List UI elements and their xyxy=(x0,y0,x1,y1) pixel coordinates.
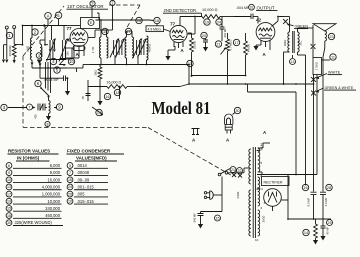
label 2.5 ohm xyxy=(26,45,30,52)
label 4.0 MF xyxy=(324,197,328,206)
label GREEN AND WHITE xyxy=(316,86,356,93)
wire rect pins xyxy=(264,200,288,211)
IF transformer T2 primary xyxy=(125,37,127,58)
label 640 xyxy=(236,192,240,199)
svg-text:16: 16 xyxy=(303,186,307,190)
node 30b xyxy=(233,107,241,114)
svg-text:28: 28 xyxy=(327,186,331,190)
wire det junction xyxy=(191,75,193,77)
wire det plate xyxy=(187,16,196,34)
pilot lamp xyxy=(225,114,233,134)
svg-text:9: 9 xyxy=(92,2,94,6)
svg-text:29: 29 xyxy=(328,221,332,225)
node 9 xyxy=(56,104,62,110)
node 13 xyxy=(187,60,193,66)
table resistor values xyxy=(6,149,63,226)
label GREEN xyxy=(287,24,308,29)
svg-text:.045 MF: .045 MF xyxy=(192,213,196,223)
wire if coil bottoms xyxy=(101,58,147,65)
label .045 xyxy=(192,213,196,223)
wire primary top stub xyxy=(257,147,260,151)
label 80 xyxy=(257,187,261,191)
wire rect cathode xyxy=(287,175,289,220)
svg-text:6: 6 xyxy=(261,206,263,210)
svg-text:A: A xyxy=(192,138,196,143)
wire osc plate to IFT1 xyxy=(88,30,101,38)
node 16 xyxy=(136,17,142,23)
svg-text:GREEN & WHITE: GREEN & WHITE xyxy=(325,86,354,90)
power transformer T4 HV secondary xyxy=(258,148,260,172)
svg-text:9: 9 xyxy=(58,105,61,110)
svg-text:18: 18 xyxy=(155,19,159,23)
node 8 xyxy=(0,0,1,1)
wire bus 76 xyxy=(191,75,296,92)
node 8b xyxy=(45,121,50,126)
svg-text:17: 17 xyxy=(7,192,11,196)
ground trap xyxy=(46,114,51,121)
node 17 xyxy=(125,28,131,34)
trimmer capacitor T2 a xyxy=(133,39,142,58)
svg-text:9: 9 xyxy=(8,171,10,175)
svg-text:.001 MF: .001 MF xyxy=(223,28,227,38)
svg-text:7: 7 xyxy=(112,1,114,5)
wire vertical green-white xyxy=(295,92,297,175)
node 17b xyxy=(233,39,239,45)
svg-text:15: 15 xyxy=(216,216,220,220)
tube V4 80 rectifier xyxy=(264,189,282,207)
node 31 xyxy=(249,4,255,10)
node 21b xyxy=(230,167,236,173)
trimmer capacitor T1 b xyxy=(116,39,125,58)
svg-text:.05: .05 xyxy=(81,96,85,100)
svg-text:5: 5 xyxy=(261,161,263,165)
output transformer T3 primary xyxy=(280,17,290,53)
svg-text:21: 21 xyxy=(231,168,235,172)
IF transformer T1 secondary xyxy=(101,30,108,58)
wire arrow left xyxy=(54,106,57,108)
dashed shield boundary top xyxy=(109,4,140,6)
svg-text:18: 18 xyxy=(115,91,119,95)
wire switch verticals xyxy=(46,62,51,93)
label 42 xyxy=(256,18,262,23)
dashed shield boundary right diagonal xyxy=(126,5,140,29)
dashed shield boundary left xyxy=(22,56,24,127)
variable capacitor C-gang section 1 xyxy=(47,26,56,62)
antenna lead-in wire xyxy=(2,45,7,63)
node 3 with ground xyxy=(36,53,42,64)
trimmer capacitor T2 b xyxy=(138,39,147,58)
wire bus top mid xyxy=(0,0,1,1)
label A under V2 xyxy=(181,48,185,53)
svg-text:10,000: 10,000 xyxy=(47,199,60,204)
antenna pin 2 xyxy=(13,26,16,45)
node E boxed xyxy=(81,18,100,29)
svg-text:.09-.09: .09-.09 xyxy=(77,177,90,182)
svg-text:.015-.015: .015-.015 xyxy=(77,199,95,204)
tuning arrow Z xyxy=(60,59,66,67)
node 14b xyxy=(303,229,309,235)
svg-text:430: 430 xyxy=(34,114,38,119)
svg-text:19: 19 xyxy=(205,20,209,24)
label 49 xyxy=(246,43,250,52)
x junction green-white xyxy=(311,91,316,96)
wire arrow into trap xyxy=(8,106,36,108)
title Model 81 xyxy=(152,98,211,118)
wire down arrows xyxy=(49,40,56,52)
svg-text:10: 10 xyxy=(255,238,259,242)
svg-text:14: 14 xyxy=(304,231,308,235)
wire vertical white xyxy=(313,75,315,192)
capacitor electrolytic 4 MF xyxy=(320,192,326,219)
wire bottom bus xyxy=(287,218,331,220)
svg-text:31C: 31C xyxy=(298,40,302,45)
node 14 xyxy=(96,109,102,115)
svg-text:1: 1 xyxy=(8,33,11,38)
ground bleeder xyxy=(313,238,318,245)
capacitor electrolytic 8 MF xyxy=(311,192,317,219)
svg-text:640Ω: 640Ω xyxy=(236,192,240,199)
svg-text:30,000Ω: 30,000Ω xyxy=(8,45,12,57)
svg-text:16: 16 xyxy=(137,19,141,23)
wire det bus junction xyxy=(188,64,190,84)
variable capacitor C-gang section 2 xyxy=(59,26,68,62)
wire top edge circles xyxy=(90,0,115,6)
svg-text:RECTIFIER: RECTIFIER xyxy=(264,181,283,185)
coil choke xyxy=(147,36,149,60)
IF transformer T1 primary 1.7 ohm xyxy=(100,37,102,58)
capacitor .004 MF xyxy=(234,6,258,19)
speaker cone xyxy=(313,24,336,31)
speaker field coil 1750 ohm xyxy=(313,58,322,75)
node 16c xyxy=(302,184,308,190)
pin 4 xyxy=(261,187,263,191)
tube V1 pins xyxy=(73,45,85,51)
svg-text:16,000: 16,000 xyxy=(47,177,60,182)
svg-text:16: 16 xyxy=(105,95,109,99)
svg-text:4.9 MEG.: 4.9 MEG. xyxy=(148,27,162,31)
wire 18 to det grid xyxy=(149,20,157,26)
svg-text:OUTPUT: OUTPUT xyxy=(257,6,275,11)
node 28 xyxy=(326,184,332,190)
svg-text:15: 15 xyxy=(7,207,11,211)
heater tap symbol xyxy=(192,129,200,135)
svg-text:A: A xyxy=(47,13,50,18)
wire horizontal 174 xyxy=(257,75,317,175)
node 18 top xyxy=(154,17,160,23)
pin 6 xyxy=(261,206,263,210)
node 3b xyxy=(1,104,7,110)
tube V3 42 output xyxy=(256,23,275,42)
node 24 xyxy=(216,19,222,25)
svg-text:VALUES(MFD): VALUES(MFD) xyxy=(76,156,107,161)
svg-text:10,000 Ω: 10,000 Ω xyxy=(202,8,218,12)
node 7 trap xyxy=(27,104,33,110)
capacitor .05 out xyxy=(320,219,325,241)
svg-text:IN (OHMS): IN (OHMS) xyxy=(17,156,40,161)
label 77 osc tube type xyxy=(67,26,73,31)
node 29 xyxy=(327,220,333,226)
label J1C xyxy=(298,40,302,45)
svg-text:13: 13 xyxy=(7,185,11,189)
label RECTIFIER boxed xyxy=(262,177,290,186)
svg-text:A: A xyxy=(226,138,230,143)
svg-text:8.0 MF: 8.0 MF xyxy=(306,197,310,206)
label A under V3 xyxy=(263,52,267,57)
antenna pin 1 xyxy=(5,26,8,63)
node 21 xyxy=(215,41,221,47)
svg-text:30: 30 xyxy=(7,221,11,225)
svg-text:1.7Ω: 1.7Ω xyxy=(91,46,95,53)
wire main B bus xyxy=(137,83,314,86)
svg-text:18: 18 xyxy=(7,214,11,218)
svg-text:11: 11 xyxy=(103,30,107,34)
power transformer T4 core xyxy=(253,147,255,238)
resistor bleeder xyxy=(314,219,318,238)
label 1ST OSCILLATOR xyxy=(67,4,109,9)
node 1 xyxy=(6,32,12,38)
wire if verticals top xyxy=(92,6,113,31)
node 16b xyxy=(104,93,110,99)
wire det down xyxy=(191,52,193,76)
label 8.0 MF xyxy=(306,197,310,206)
node 23 xyxy=(328,33,334,39)
tube V1 77 oscillator xyxy=(67,26,88,47)
svg-text:Model 81: Model 81 xyxy=(152,98,211,118)
svg-text:2ND DETECTOR.: 2ND DETECTOR. xyxy=(164,8,198,13)
power transformer T4 6V winding xyxy=(258,210,260,236)
wire opt to field xyxy=(302,55,306,75)
wire gang bottom xyxy=(46,58,66,61)
wire trimmer bottoms xyxy=(115,55,138,65)
capacitor .001 xyxy=(220,17,227,42)
wire cap to ground xyxy=(65,78,70,95)
svg-text:10: 10 xyxy=(7,178,11,182)
wire switch to primary xyxy=(228,168,249,173)
node 2 xyxy=(32,29,38,35)
wire vertical speaker return xyxy=(322,57,324,192)
trimmer capacitor T1 a xyxy=(110,39,119,58)
wire gang to cap xyxy=(39,62,41,78)
wire field stub xyxy=(322,59,331,61)
dashed shield boundary bottom xyxy=(23,127,148,129)
svg-text:42: 42 xyxy=(256,18,262,23)
wire 35 to bus xyxy=(99,65,101,88)
svg-text:13: 13 xyxy=(291,60,295,64)
wire plate to OPT xyxy=(270,17,284,51)
svg-text:7: 7 xyxy=(69,171,71,175)
wire bus avc xyxy=(90,64,189,66)
node 18b xyxy=(114,89,120,95)
capacitor .05 grid xyxy=(81,80,91,101)
wire to output grid xyxy=(257,17,259,24)
svg-text:2.5Ω: 2.5Ω xyxy=(26,45,30,52)
x junction speaker xyxy=(323,41,325,57)
wire left bus 68 xyxy=(39,67,41,69)
label A lamp xyxy=(226,138,230,143)
svg-text:460,000: 460,000 xyxy=(45,213,61,218)
svg-text:49,000: 49,000 xyxy=(246,43,250,52)
svg-text:WHITE: WHITE xyxy=(328,71,341,75)
node 4 xyxy=(50,58,56,64)
svg-text:A: A xyxy=(181,48,185,53)
dashed shield boundary diagonal to switch xyxy=(148,128,232,176)
svg-text:14: 14 xyxy=(97,111,101,115)
tube V3 pins xyxy=(261,41,270,48)
label .45 MF xyxy=(326,227,330,235)
svg-text:16,000 Ω: 16,000 Ω xyxy=(107,81,122,85)
svg-text:77: 77 xyxy=(67,26,73,31)
svg-text:11: 11 xyxy=(331,55,335,59)
label WHITE xyxy=(316,71,342,80)
switch S2 tone xyxy=(92,107,103,116)
svg-text:19: 19 xyxy=(7,200,11,204)
label 30000 xyxy=(8,45,12,57)
switch S1 wave band xyxy=(40,87,50,98)
svg-text:360Ω: 360Ω xyxy=(262,216,266,223)
svg-text:4,000,000: 4,000,000 xyxy=(42,184,61,189)
svg-text:.005: .005 xyxy=(77,192,86,197)
svg-text:25,000: 25,000 xyxy=(192,40,196,49)
node 19 xyxy=(204,19,210,25)
node 13b xyxy=(290,55,296,65)
wire vertical field return xyxy=(305,75,307,186)
svg-text:.001-.015: .001-.015 xyxy=(77,184,95,189)
svg-text:240,000: 240,000 xyxy=(45,206,61,211)
wire T4 top xyxy=(258,143,270,148)
svg-text:3: 3 xyxy=(3,105,6,110)
svg-text:80: 80 xyxy=(257,187,261,191)
node A xyxy=(45,13,52,26)
node 11 xyxy=(102,28,108,34)
svg-text:10: 10 xyxy=(69,59,74,64)
wire opt primary down xyxy=(283,52,290,85)
IF transformer T2 secondary xyxy=(127,31,134,58)
svg-text:26: 26 xyxy=(68,192,72,196)
svg-text:1ST OSCILLATOR: 1ST OSCILLATOR xyxy=(67,4,104,9)
ground 16000 xyxy=(97,87,102,106)
wire opt secondary to speaker xyxy=(298,25,316,58)
svg-text:E: E xyxy=(90,21,93,25)
wire trap top xyxy=(48,97,50,101)
label 25000 xyxy=(192,40,196,49)
speaker voice coil xyxy=(325,31,327,41)
pin 8 xyxy=(261,174,263,178)
svg-text:360Ω: 360Ω xyxy=(283,40,287,47)
ground output cathode xyxy=(253,45,261,51)
output transformer T3 core xyxy=(293,31,295,53)
pin 5 xyxy=(261,161,263,165)
svg-text:23: 23 xyxy=(329,35,333,39)
switch S3 power xyxy=(218,169,230,176)
svg-text:10: 10 xyxy=(68,200,72,204)
node 22b xyxy=(237,168,243,174)
svg-text:7: 7 xyxy=(29,105,31,109)
svg-text:24: 24 xyxy=(217,20,221,24)
resistor 30000 ohm antenna shunt xyxy=(12,44,16,64)
tube V2 pins xyxy=(174,42,183,48)
svg-text:22: 22 xyxy=(238,169,242,173)
wire V1 cathode bottom xyxy=(66,52,79,59)
node 15b xyxy=(215,215,221,221)
label 77 det xyxy=(170,22,176,27)
svg-text:16: 16 xyxy=(68,178,72,182)
capacitor det bypass xyxy=(203,38,208,52)
output transformer T3 secondary xyxy=(298,32,300,52)
svg-text:4: 4 xyxy=(261,187,263,191)
svg-text:21: 21 xyxy=(216,42,220,46)
wire r down xyxy=(245,55,247,76)
capacitor trap series xyxy=(38,104,45,111)
node 11b xyxy=(330,54,336,60)
svg-text:4.0 MF: 4.0 MF xyxy=(324,197,328,206)
x junction sw1 xyxy=(232,173,236,177)
x junction white xyxy=(311,77,316,82)
capacitor .045 MF line xyxy=(198,195,223,229)
svg-text:24: 24 xyxy=(68,185,72,189)
wire plug cord xyxy=(213,177,222,196)
label 0.7 MEG xyxy=(229,40,233,51)
power transformer T4 5V winding xyxy=(258,177,260,206)
svg-text:6,000: 6,000 xyxy=(50,163,61,168)
svg-text:5: 5 xyxy=(57,13,60,18)
wire antenna to coil xyxy=(44,26,48,46)
svg-text:8: 8 xyxy=(47,122,49,126)
label A under V1 xyxy=(76,52,80,57)
junction dots bus avc xyxy=(45,50,90,79)
svg-text:17: 17 xyxy=(126,30,130,34)
table condenser values xyxy=(67,149,125,205)
svg-text:17: 17 xyxy=(234,41,238,45)
svg-text:9,000: 9,000 xyxy=(50,170,61,175)
label OUTPUT xyxy=(256,6,278,11)
svg-text:A: A xyxy=(263,52,267,57)
wire coil top to bus xyxy=(32,26,45,45)
label 4500 xyxy=(147,44,151,52)
label 360 opt xyxy=(283,40,287,47)
svg-text:.45 MF: .45 MF xyxy=(326,227,330,235)
label 35 ohm xyxy=(94,69,98,75)
x junction output xyxy=(283,19,288,24)
AC plug xyxy=(204,191,213,200)
node 10 xyxy=(68,58,74,64)
antenna coil primary 2.5 ohm xyxy=(30,38,32,60)
svg-text:FIXED CONDENSER: FIXED CONDENSER xyxy=(67,149,111,154)
svg-text:A: A xyxy=(263,130,267,135)
svg-text:4500Ω: 4500Ω xyxy=(147,44,151,52)
node 20 xyxy=(201,32,207,38)
label NO44 lamp type xyxy=(260,130,268,151)
svg-text:325(WIRE WOUND): 325(WIRE WOUND) xyxy=(15,220,53,225)
label 360 sec xyxy=(262,216,266,223)
svg-text:30: 30 xyxy=(235,109,239,113)
svg-text:250: 250 xyxy=(66,51,70,56)
dashed shield boundary upper-left diagonal xyxy=(23,6,64,56)
antenna coil secondary xyxy=(40,44,44,61)
svg-text:6: 6 xyxy=(37,81,40,86)
svg-text:5: 5 xyxy=(69,164,71,168)
svg-text:1,000,000: 1,000,000 xyxy=(42,192,61,197)
svg-text:2: 2 xyxy=(34,30,37,35)
wire V2 cathode xyxy=(165,46,175,61)
wire v3 plate junction xyxy=(277,16,279,18)
label 430 xyxy=(34,114,38,119)
resistor 10000 ohm xyxy=(202,15,234,19)
resistor 16000 ohm xyxy=(88,85,137,89)
wire T4 HV to bus xyxy=(258,172,262,175)
x junction sw2 xyxy=(238,174,242,178)
label 16000 xyxy=(107,81,122,85)
svg-text:1750Ω: 1750Ω xyxy=(314,62,318,70)
